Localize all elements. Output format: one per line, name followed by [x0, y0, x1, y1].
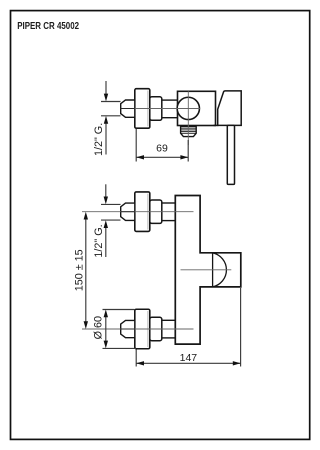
svg-text:PIPER CR 45002: PIPER CR 45002	[17, 20, 79, 31]
svg-text:147: 147	[180, 352, 198, 364]
svg-text:Ø 60: Ø 60	[93, 316, 105, 339]
svg-text:1/2" G.: 1/2" G.	[93, 123, 105, 156]
svg-text:69: 69	[156, 143, 168, 155]
svg-text:1/2" G.: 1/2" G.	[93, 224, 105, 257]
svg-text:150 ± 15: 150 ± 15	[74, 249, 86, 291]
